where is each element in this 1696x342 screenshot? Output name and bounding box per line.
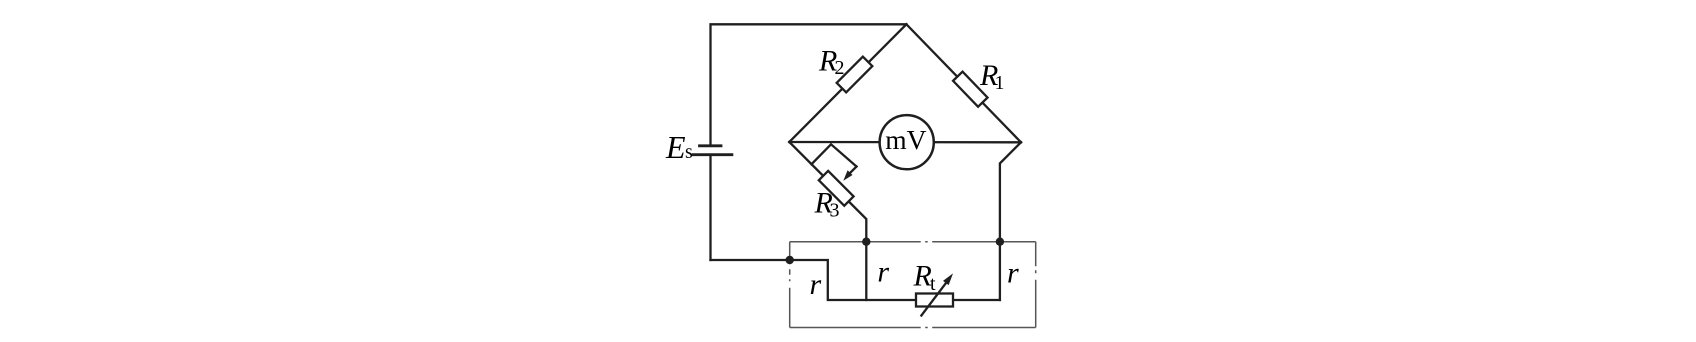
- svg-text:E: E: [665, 129, 686, 165]
- junction dot: right lead on box top edge: [996, 238, 1004, 246]
- junction dot: battery lead on box left edge: [786, 256, 794, 264]
- box bottom edge: [790, 327, 1036, 329]
- wire: lower-right arm (right vertex, elbow, down into box): [1000, 142, 1021, 300]
- svg-text:R: R: [913, 260, 932, 293]
- battery Es: [709, 155, 711, 260]
- wiper arrow of R3: [812, 144, 857, 166]
- svg-text:1: 1: [995, 72, 1005, 94]
- box top edge: [790, 241, 1036, 243]
- resistor Rt: [916, 294, 953, 307]
- wire: upper-left bridge arm (apex to left vertex): [789, 24, 906, 142]
- svg-text:t: t: [930, 273, 936, 295]
- svg-text:s: s: [685, 141, 693, 163]
- arrow of Rt: [921, 283, 946, 316]
- wire: middle detector branch (left vertex to right vertex): [789, 141, 1021, 144]
- box right edge: [1035, 242, 1037, 328]
- meter mV (U1): [880, 115, 934, 169]
- resistor R2: [837, 57, 873, 93]
- dash-dot box (three-wire sensor enclosure): [790, 242, 1036, 328]
- svg-text:mV: mV: [885, 124, 926, 155]
- wire: upper-right bridge arm (apex to right vertex): [906, 24, 1021, 142]
- box left edge: [789, 242, 791, 328]
- svg-text:r: r: [1007, 256, 1019, 289]
- svg-text:r: r: [877, 256, 889, 289]
- wire: top from battery to apex: [711, 24, 907, 146]
- resistor R1: [953, 72, 988, 107]
- wire: lower-left bridge arm (left vertex through R3, elbow, down to box): [789, 142, 866, 300]
- wire: bottom lead from Rt to right vertical: [953, 299, 1000, 301]
- wire: battery negative lead into box (left lead r): [711, 260, 917, 300]
- junction dot: middle lead on box top edge: [862, 238, 870, 246]
- resistor R3: [819, 171, 854, 206]
- svg-text:r: r: [810, 268, 822, 301]
- svg-text:3: 3: [830, 200, 840, 222]
- svg-text:2: 2: [835, 57, 845, 79]
